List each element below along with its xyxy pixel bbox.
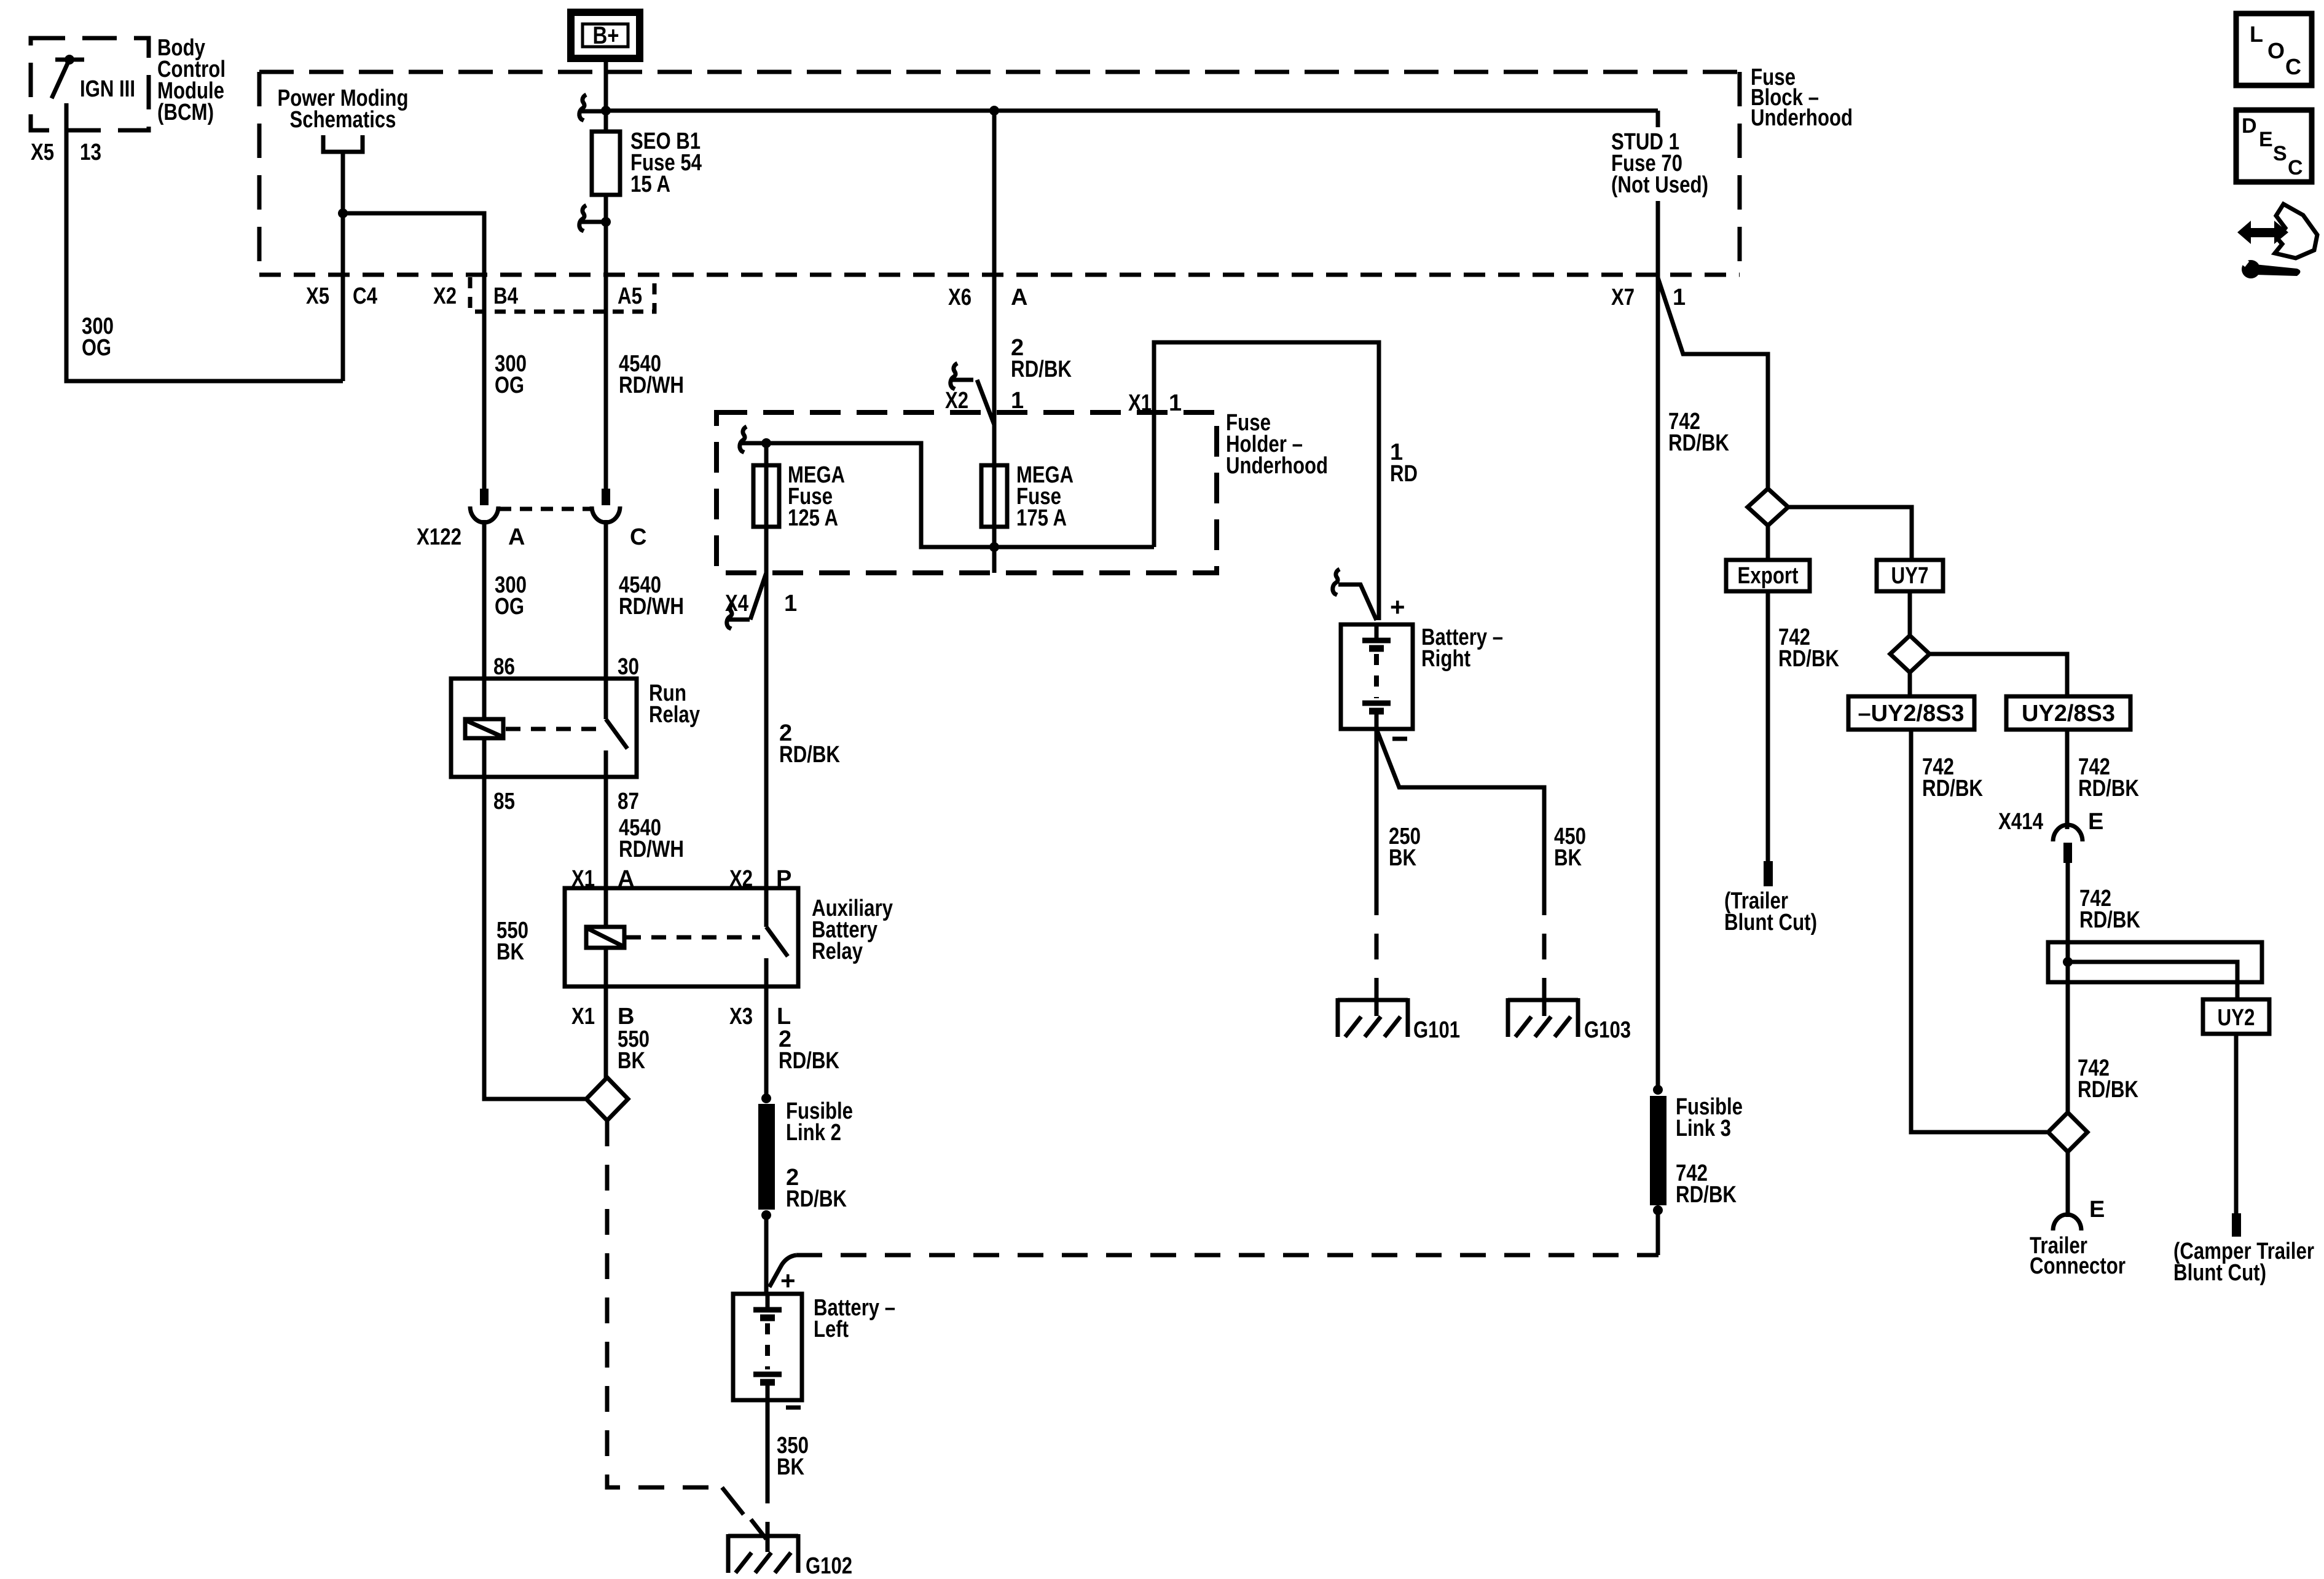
wire: 300 OG from BCM IGN III down and right [66, 103, 343, 381]
svg-text:G103: G103 [1584, 1017, 1631, 1043]
wire: X7 jog branch to export splice [1658, 278, 1768, 489]
fusible link: Fusible Link 3 [1650, 1094, 1743, 1208]
fuse: MEGA Fuse 175 A [981, 425, 1074, 573]
svg-text:D: D [2242, 114, 2257, 138]
connector: Trailer Connector pin E [2030, 1152, 2126, 1279]
pin: BCM connector X5 terminal 13 [31, 140, 101, 165]
wire: fusible link 2 to battery left positive [764, 1215, 769, 1294]
relay: Auxiliary Battery Relay [565, 888, 893, 986]
switch: IGN III ignition contact inside BCM [52, 55, 135, 102]
svg-text:85: 85 [493, 789, 515, 814]
svg-text:X2: X2 [945, 388, 968, 414]
fuse position: STUD 1 Fuse 70 (Not Used) [1611, 111, 1708, 275]
pin: X7 terminal 1 [1611, 285, 1686, 310]
pin row: X5 C4 X2 B4 A5 [306, 283, 642, 309]
svg-text:RD/BK: RD/BK [1778, 646, 1839, 672]
option box: -UY2/8S3 [1848, 696, 1974, 730]
wire: 300 OG from X122 A to run relay 86 [484, 520, 527, 679]
svg-text:X122: X122 [417, 524, 461, 550]
svg-text:B+: B+ [593, 22, 619, 49]
svg-text:UY7: UY7 [1891, 563, 1929, 589]
splice: diamond to Export / UY7 [1748, 489, 1788, 526]
wire: 742 RD/BK from -UY2/8S3 to trailer splice [1911, 730, 2047, 1132]
connector: in-line housing with internal branch to UY2 [2048, 942, 2262, 999]
wire: from Power Moding bracket down to junction [341, 152, 345, 381]
svg-text:L: L [2250, 22, 2263, 47]
wire: diamond to -UY2/8S3 box [1908, 672, 1912, 696]
svg-text:RD/WH: RD/WH [619, 594, 684, 620]
connector: X4 pin 1 jog below fuse holder [725, 573, 797, 629]
svg-text:Link 2: Link 2 [786, 1120, 841, 1146]
svg-text:Blunt Cut): Blunt Cut) [2173, 1260, 2266, 1286]
wire: 4540 RD/WH from relay 87 to aux relay pin A [606, 777, 684, 888]
wire: 550 BK from relay 85 down to splice diamond [484, 777, 586, 1099]
splice: diamond to UY2/8S3 options [1890, 636, 1929, 672]
junction: top of fusible link 2 [761, 1093, 771, 1103]
svg-text:OG: OG [82, 335, 111, 361]
splice: diamond on 550 BK [586, 1077, 628, 1120]
svg-text:1: 1 [1169, 390, 1182, 416]
svg-text:Link 3: Link 3 [1676, 1116, 1731, 1141]
svg-text:UY2: UY2 [2218, 1005, 2255, 1031]
wire: 4540 RD/WH from fuse 54 to pin A5 and X122 C [606, 195, 684, 489]
wire: dashed 550 BK run from diamond toward G102 [607, 1120, 766, 1539]
svg-text:S: S [2273, 142, 2287, 165]
svg-text:1: 1 [1011, 388, 1024, 414]
icon: page-jump arrow with wrench [2237, 204, 2317, 278]
battery: Battery - Left [733, 1294, 895, 1400]
svg-text:RD/WH: RD/WH [619, 837, 684, 862]
wire: 450 BK branch battery right to G103 [1376, 729, 1586, 1000]
wire: 550 BK from aux relay B to splice diamond [606, 986, 650, 1081]
svg-text:RD/BK: RD/BK [1011, 356, 1072, 382]
svg-text:175 A: 175 A [1016, 505, 1067, 531]
svg-text:BK: BK [777, 1454, 804, 1480]
svg-text:(BCM): (BCM) [157, 100, 214, 125]
ground: G103 [1508, 998, 1631, 1043]
svg-text:G102: G102 [806, 1553, 852, 1579]
fuse: MEGA Fuse 125 A [753, 443, 845, 573]
wire: 742 RD/BK main run from X7 to fusible link 3 [1658, 275, 1729, 1090]
svg-text:A: A [508, 524, 525, 550]
terminal: battery left negative mark [786, 1406, 801, 1410]
svg-text:1: 1 [1673, 285, 1686, 310]
svg-text:Relay: Relay [649, 702, 700, 728]
svg-text:O: O [2267, 38, 2285, 63]
module: Body Control Module (BCM) dashed box [31, 38, 149, 130]
svg-text:X414: X414 [1998, 809, 2043, 835]
svg-text:Underhood: Underhood [1226, 453, 1328, 479]
wire: dashed tie line battery left + to fusible link 3 [769, 1255, 1659, 1295]
svg-text:RD/BK: RD/BK [786, 1186, 847, 1212]
wire: UY7 box to second splice [1908, 591, 1912, 636]
svg-text:X2: X2 [433, 283, 457, 309]
wire: 250 BK battery right to G101 [1376, 729, 1421, 1000]
svg-text:RD/BK: RD/BK [779, 742, 840, 768]
svg-text:+: + [780, 1266, 796, 1295]
option box: UY2/8S3 [2006, 696, 2130, 730]
svg-text:E: E [2089, 1197, 2105, 1223]
splice: diamond at trailer connector [2048, 1112, 2087, 1152]
svg-text:X7: X7 [1611, 285, 1635, 310]
icon: LOC hotspot box [2236, 14, 2312, 85]
connector: X414 pin E [1998, 809, 2103, 863]
junction: bottom of fusible link 2 [761, 1210, 771, 1220]
svg-text:OG: OG [495, 372, 524, 398]
connector: X2 pin 1 in-line jog into fuse holder [945, 363, 1024, 425]
svg-text:X3: X3 [729, 1004, 753, 1030]
svg-text:Left: Left [814, 1317, 849, 1342]
svg-text:L: L [777, 1004, 791, 1030]
svg-text:UY2/8S3: UY2/8S3 [2022, 701, 2115, 726]
svg-text:IGN III: IGN III [80, 76, 135, 102]
svg-text:(Not Used): (Not Used) [1611, 172, 1708, 198]
wire: 742 RD/BK UY2 to camper trailer blunt cut [2173, 1034, 2314, 1286]
wire: 742 RD/BK from UY2/8S3 to X414 [2067, 730, 2139, 829]
terminal: battery right negative mark [1392, 737, 1407, 741]
svg-text:RD/WH: RD/WH [619, 372, 684, 398]
wire: 2 RD/BK from X4 to aux battery relay P [766, 573, 840, 888]
svg-text:87: 87 [618, 789, 639, 814]
svg-text:RD/BK: RD/BK [1676, 1182, 1737, 1208]
svg-text:X5: X5 [31, 140, 54, 165]
wire: X1 pin 1 riser to battery right [1128, 342, 1418, 620]
svg-text:G101: G101 [1413, 1017, 1460, 1043]
power: B+ symbol [571, 12, 640, 58]
fusible link: Fusible Link 2 [758, 1098, 853, 1212]
svg-text:RD: RD [1390, 461, 1418, 487]
icon: DESC hotspot box [2236, 110, 2312, 182]
svg-text:RD/BK: RD/BK [2079, 907, 2140, 933]
battery: Battery - Right [1341, 624, 1503, 729]
svg-text:B: B [618, 1004, 634, 1030]
svg-text:RD/BK: RD/BK [1922, 776, 1983, 801]
svg-text:C4: C4 [353, 283, 377, 309]
option box: UY7 [1877, 560, 1943, 591]
svg-text:RD/BK: RD/BK [1668, 430, 1729, 456]
wire: 742 RD/BK X414 to in-line connector [2068, 863, 2140, 942]
wire: 742 RD/BK to trailer connector splice [2068, 982, 2138, 1112]
svg-text:86: 86 [493, 654, 515, 680]
svg-text:RD/BK: RD/BK [2078, 776, 2139, 801]
wire: link between both MEGA fuses [766, 443, 1154, 547]
junction: top of fusible link 3 [1653, 1085, 1663, 1095]
connector: X2 pigtail dashed box with pins B4 A5 [470, 277, 654, 312]
wire: diamond to UY2/8S3 box [1929, 654, 2067, 696]
wire: 350 BK battery left to G102 [767, 1400, 809, 1537]
svg-text:BK: BK [497, 939, 524, 965]
junction: splice on X5-C4 wire [338, 208, 348, 218]
clip: fuse clip below SEO B1 with junction dot [579, 205, 611, 231]
wire: B+ down into fuse block [604, 58, 608, 133]
svg-text:Relay: Relay [812, 939, 863, 964]
svg-text:13: 13 [80, 140, 101, 165]
module: Fuse Block - Underhood dashed box [259, 72, 1740, 275]
relay: Run Relay [451, 679, 700, 777]
svg-text:E: E [2259, 128, 2273, 151]
svg-text:C: C [2285, 54, 2301, 79]
wire: main B+ bus across fuse block [606, 109, 1658, 113]
svg-text:B4: B4 [493, 283, 518, 309]
svg-text:1: 1 [784, 591, 797, 616]
junction: B+ bus at SEO B1 fuse [601, 106, 611, 116]
svg-text:RD/BK: RD/BK [779, 1048, 839, 1074]
svg-text:+: + [1390, 593, 1405, 621]
svg-text:X5: X5 [306, 283, 329, 309]
svg-text:BK: BK [1389, 845, 1416, 871]
pin row: X1 A X2 P [571, 866, 791, 892]
ground: G102 [728, 1534, 852, 1579]
pin: run relay 85 and 87 [493, 789, 639, 814]
option box: UY2 [2203, 999, 2269, 1034]
junction: bottom of fusible link 3 [1653, 1205, 1663, 1215]
svg-text:E: E [2088, 809, 2103, 835]
svg-text:15 A: 15 A [630, 171, 670, 197]
wire: 742 RD/BK export to trailer blunt cut [1768, 591, 1839, 861]
svg-text:OG: OG [495, 594, 524, 620]
svg-text:X4: X4 [725, 591, 748, 616]
option box: Export [1726, 560, 1810, 591]
svg-text:X6: X6 [948, 285, 972, 310]
svg-text:BK: BK [618, 1048, 645, 1074]
svg-text:125 A: 125 A [788, 505, 838, 531]
junction: MEGA 125 A top [761, 438, 771, 448]
fuse: SEO B1 Fuse 54 15 A [592, 128, 702, 197]
svg-text:A5: A5 [618, 283, 642, 309]
ground: G101 [1338, 998, 1460, 1043]
svg-text:BK: BK [1554, 845, 1582, 871]
svg-text:Connector: Connector [2030, 1253, 2126, 1279]
clip: clip at MEGA fuse 125 A feed [740, 427, 763, 452]
connector: X122 pins A and C [417, 489, 646, 550]
svg-text:Export: Export [1738, 563, 1799, 589]
svg-text:RD/BK: RD/BK [2078, 1077, 2138, 1103]
junction: MEGA 175 A bottom [989, 542, 999, 552]
wire: diamond to Export box [1766, 526, 1770, 560]
wire label: 300 OG above X122 [495, 351, 527, 398]
terminal: trailer blunt cut [1724, 861, 1817, 935]
svg-text:C: C [2288, 156, 2303, 179]
label: Body Control Module (BCM) [157, 35, 226, 125]
label: Fuse Block - Underhood [1751, 65, 1853, 131]
svg-text:Schematics: Schematics [290, 107, 396, 133]
svg-text:X1: X1 [571, 1004, 595, 1030]
svg-text:A: A [1011, 285, 1027, 310]
svg-text:Underhood: Underhood [1751, 105, 1853, 131]
node: Power Moding Schematics off-page bracket [278, 85, 409, 152]
wire: 2 RD/BK from aux relay L to fusible link 2 [766, 986, 839, 1098]
wire: 2 RD/BK from bus through pin X6 A [948, 111, 1072, 425]
terminal: camper trailer blunt cut [2232, 1213, 2241, 1237]
svg-text:30: 30 [618, 654, 639, 680]
wire: diamond to UY7 box [1788, 507, 1912, 560]
svg-text:–UY2/8S3: –UY2/8S3 [1858, 701, 1965, 726]
svg-text:Blunt Cut): Blunt Cut) [1724, 910, 1817, 935]
junction: B+ bus to X6 drop [989, 106, 999, 116]
pin row: X1 B X3 L [571, 1004, 791, 1030]
svg-text:X1: X1 [1128, 390, 1152, 416]
module: Fuse Holder - Underhood dashed box [716, 410, 1328, 573]
clip: fuse clip above SEO B1 [579, 95, 602, 120]
svg-text:Right: Right [1421, 646, 1470, 672]
wire: 4540 RD/WH from X122 C to run relay 30 [606, 520, 684, 679]
pin: run relay 86 and 30 [493, 654, 639, 680]
wire: branch from junction to pin B4 [343, 213, 484, 489]
svg-text:C: C [630, 524, 646, 550]
clip: battery right positive clip [1333, 569, 1405, 621]
wire: fusible link 3 to dashed tie line [1656, 1210, 1660, 1255]
